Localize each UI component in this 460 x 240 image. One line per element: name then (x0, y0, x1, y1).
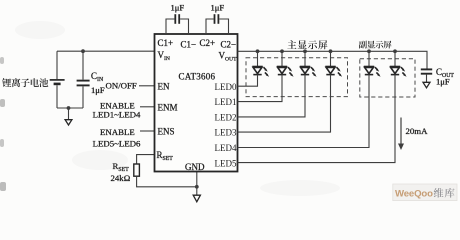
svg-text:C2−: C2− (221, 40, 237, 50)
wire ON/OFF to EN pin (139, 85, 155, 87)
label 主显示屏 (287, 40, 327, 49)
svg-text:LED2: LED2 (215, 112, 237, 122)
node battery/CIN bottom junction (67, 106, 71, 110)
svg-text:ON/OFF: ON/OFF (106, 81, 137, 91)
wire RSET pin to resistor (137, 155, 155, 164)
wire LED3 pin to D4 cathode (238, 75, 331, 133)
node VOUT rail junction x=369 (367, 49, 371, 53)
svg-text:ENABLE: ENABLE (100, 127, 135, 137)
LED D5 (364, 51, 381, 77)
svg-text:ENS: ENS (158, 127, 175, 137)
current arrow 20mA (398, 118, 404, 151)
svg-text:20mA: 20mA (406, 126, 429, 136)
label ENABLE LED1~LED4 (93, 100, 141, 119)
wire LED5 pin to D6 cathode (238, 75, 396, 163)
op-amp/driver IC U1 CAT3606 (155, 34, 238, 172)
node VOUT rail junction x=282 (280, 49, 284, 53)
LED D4 (325, 51, 342, 77)
watermark WeeQoo (393, 184, 457, 201)
wire VOUT rail (238, 51, 428, 68)
svg-text:1μF: 1μF (171, 2, 185, 12)
wire resistor bottom to GND net (137, 176, 197, 187)
LED D2 (277, 51, 294, 77)
resistor RSET 24k (134, 164, 140, 176)
label 副显示屏 (359, 41, 392, 49)
LED D6 (390, 51, 407, 77)
label 锂离子电池 (battery name) (2, 78, 48, 87)
wire battery negative to CIN bottom (57, 107, 83, 109)
svg-text:1μF: 1μF (211, 2, 225, 12)
wire LED0 pin to D1 cathode (238, 75, 258, 87)
LED D1 (252, 51, 269, 77)
ground (battery/CIN) (65, 108, 72, 125)
svg-text:LED1: LED1 (215, 97, 237, 107)
node VOUT rail junction x=330.5 (329, 49, 333, 53)
svg-text:LED3: LED3 (215, 128, 237, 138)
svg-text:CAT3606: CAT3606 (179, 72, 216, 82)
ground (GND pin) (193, 187, 200, 202)
svg-text:LED4: LED4 (215, 143, 237, 153)
wire GND pin down (196, 172, 198, 187)
capacitor CIN (77, 51, 90, 108)
capacitor C2 (flying) (206, 14, 229, 34)
svg-text:LED5: LED5 (215, 158, 237, 168)
capacitor C1 (flying) (166, 14, 189, 34)
svg-text:LED1~LED4: LED1~LED4 (93, 110, 141, 120)
svg-text:C2+: C2+ (200, 38, 216, 48)
label RSET 24kOhm (111, 161, 131, 183)
svg-text:GND: GND (185, 162, 205, 172)
node VOUT rail junction x=395 (393, 49, 397, 53)
svg-text:1μF: 1μF (436, 76, 450, 86)
svg-text:ENM: ENM (158, 102, 178, 112)
svg-text:C1+: C1+ (158, 38, 174, 48)
battery BT1 (lithium-ion cell) (50, 51, 65, 108)
main display dashed box 主显示屏 (246, 58, 348, 97)
node GND junction (195, 185, 199, 189)
ground (COUT) (423, 82, 430, 88)
svg-text:LED5~LED6: LED5~LED6 (93, 138, 141, 148)
label ENABLE LED5~LED6 (93, 127, 141, 149)
wire ENABLE1 to ENM pin (140, 106, 155, 108)
secondary display dashed box 副显示屏 (360, 59, 415, 97)
wire LED4 pin to D5 cathode (238, 75, 370, 148)
node battery/CIN top junction (81, 49, 85, 53)
svg-text:C1−: C1− (181, 40, 197, 50)
wire ENABLE2 to ENS pin (140, 130, 155, 132)
svg-text:24kΩ: 24kΩ (111, 173, 131, 183)
wire LED2 pin to D3 cathode (238, 75, 306, 117)
svg-text:EN: EN (158, 81, 170, 91)
svg-text:1μF: 1μF (91, 85, 105, 95)
svg-text:WeeQoo: WeeQoo (395, 189, 433, 200)
node VOUT rail junction x=305 (303, 49, 307, 53)
LED D3 (300, 51, 317, 77)
capacitor COUT (421, 69, 432, 82)
node VOUT rail junction x=257.5 (256, 49, 260, 53)
svg-text:LED0: LED0 (215, 82, 237, 92)
wire VIN rail (battery to VIN pin) (57, 50, 155, 52)
wire LED1 pin to D2 cathode (238, 75, 283, 102)
